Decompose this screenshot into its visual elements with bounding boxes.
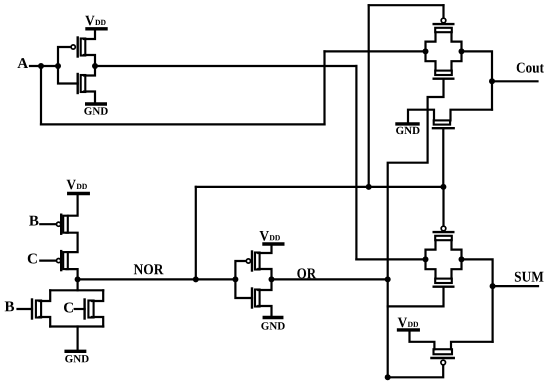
wire M3 drain to M4 source	[67, 233, 78, 252]
tg nmos channel	[435, 279, 452, 283]
tg pmos channel	[435, 28, 452, 32]
ground bar A-inverter	[87, 102, 106, 105]
nmos M6 channel	[88, 301, 93, 318]
wire B to M5 gate	[18, 308, 33, 310]
wire NOR up right	[368, 5, 370, 187]
wire NOR output run	[78, 278, 236, 280]
label OR	[297, 268, 316, 278]
wire Cout output	[492, 80, 538, 82]
wire M5 source to bottom rail	[40, 317, 51, 327]
wire inverter gate to PMOS M7	[235, 261, 246, 279]
wire M2 drain to output	[84, 66, 95, 76]
wire bottom rail to GND	[76, 327, 78, 352]
wire inverter gate to NMOS M8	[235, 279, 252, 298]
tg pmos channel	[435, 236, 452, 240]
pmos M7 channel	[255, 253, 260, 270]
label VDD OR-inverter	[260, 231, 280, 241]
pmos M4 channel	[63, 252, 68, 269]
pmos M7 gate	[251, 252, 253, 271]
wire A down	[40, 66, 42, 124]
tg pmos bubble	[441, 226, 446, 231]
wire A top run to TG1 input	[325, 50, 426, 52]
wire NOR horizontal run	[196, 186, 444, 188]
tg pmos bubble	[441, 18, 446, 23]
node OR junction	[385, 276, 391, 282]
nmos M9 channel (Cout pulldown)	[434, 120, 450, 124]
pmos M4 bubble	[57, 259, 61, 263]
label GND NOR	[65, 355, 88, 362]
node NOR to TG1 pgate riser	[366, 184, 372, 190]
wire M7 drain to OR output	[258, 269, 271, 279]
label VDD SUM block	[398, 318, 418, 328]
tg nmos channel	[435, 71, 452, 75]
wire M2 source to GND	[84, 92, 95, 103]
pmos M4 gate	[60, 251, 62, 270]
wire pulldown bottom rail	[50, 325, 103, 327]
wire OR run to TG gates	[272, 278, 388, 280]
wire Abar to TG2 input	[356, 258, 425, 260]
wire M6 source to bottom rail	[92, 317, 103, 327]
label VDD A-inverter	[85, 16, 105, 26]
ground bar NOR	[66, 350, 85, 353]
wire C to M6 gate	[75, 308, 85, 310]
pmos M7 bubble	[246, 259, 250, 263]
tg pmos gate bar	[434, 231, 454, 233]
node A gate junction	[55, 63, 61, 69]
input label C pullup	[28, 254, 37, 264]
nmos M5 gate	[31, 300, 33, 319]
input label B pulldown	[5, 302, 14, 312]
pmos M1 bubble	[71, 45, 75, 49]
power VDD bar NOR	[69, 192, 89, 195]
pmos M3 gate	[60, 215, 62, 234]
input label C pulldown	[64, 303, 73, 313]
node NOR to TG2 pgate	[440, 184, 446, 190]
wire M9 gate down to NOR net	[442, 128, 444, 187]
wire NOR node down to pulldown pair	[76, 279, 78, 290]
wire M7 source to VDD	[258, 246, 271, 254]
tg nmos gate bar	[434, 286, 454, 288]
wire M9 source to GND	[408, 110, 434, 123]
wire Abar run right	[95, 65, 356, 67]
wire A input	[30, 65, 58, 67]
nmos M8 channel	[255, 290, 260, 307]
tg left node	[423, 48, 429, 54]
tg pmos gate bar	[434, 23, 454, 25]
wire C to M4 gate	[40, 260, 56, 262]
pmos M10 channel (SUM pullup)	[434, 349, 453, 354]
label NOR	[134, 264, 164, 274]
wire TG2 right to SUM corner	[462, 259, 493, 341]
wire A up	[323, 51, 325, 124]
wire M1 drain to output	[84, 55, 95, 66]
label Cout	[517, 63, 544, 73]
node OR output	[269, 276, 275, 282]
nmos M8 gate	[251, 289, 253, 308]
node NOR output	[75, 276, 81, 282]
wire pulldown top rail	[50, 289, 103, 291]
label GND OR-inverter	[261, 322, 284, 329]
label VDD NOR	[67, 180, 87, 190]
wire Cout bottom to M9 drain	[451, 110, 493, 121]
wire TG1 ngate step down to OR net	[388, 79, 444, 378]
tg body outline	[426, 240, 462, 278]
wire NOR up	[195, 187, 197, 280]
pmos M1 gate	[76, 38, 78, 57]
tg left node	[423, 256, 429, 262]
wire A gate to PMOS M1	[58, 47, 71, 66]
tg body outline	[426, 32, 462, 70]
node Cout junction	[489, 78, 495, 84]
ground bar OR-inverter	[264, 316, 282, 319]
wire M4 drain to NOR node	[67, 269, 78, 279]
wire A bottom run	[41, 123, 325, 125]
pmos M3 bubble	[57, 222, 61, 226]
wire NOR down to TG2 bubble	[442, 187, 444, 226]
label SUM	[515, 272, 544, 282]
wire TG1 right to Cout corner	[462, 51, 493, 109]
power VDD bar SUM block	[399, 328, 419, 331]
wire M10 source to VDD	[410, 331, 435, 349]
wire M6 drain to top rail	[92, 290, 103, 301]
ground bar Cout block	[397, 122, 418, 125]
nmos M6 gate	[83, 300, 85, 319]
label GND Cout block	[396, 127, 419, 134]
nmos M2 gate	[76, 74, 78, 93]
tg nmos gate bar	[434, 77, 454, 79]
wire to TG1 bubble	[442, 5, 444, 18]
input label B pullup	[29, 216, 38, 226]
node NOR rise junction	[193, 276, 199, 282]
power VDD bar A-inverter	[87, 27, 106, 30]
wire M1 source to VDD	[84, 30, 95, 39]
wire TG2 ngate to OR net	[388, 287, 444, 307]
power VDD bar OR-inverter	[264, 242, 283, 245]
wire M8 drain to OR output	[258, 279, 271, 290]
wire M8 source to GND	[258, 306, 271, 316]
tg right node	[459, 48, 465, 54]
wire A gate to NMOS M2	[58, 66, 78, 84]
pmos M1 channel	[81, 39, 86, 56]
input label A	[17, 58, 28, 68]
label GND A-inverter	[84, 107, 107, 114]
pmos M3 channel	[63, 216, 68, 233]
nmos M9 gate bar	[433, 127, 454, 129]
wire M5 drain to top rail	[40, 290, 51, 301]
wire OR bottom rail to M10 gate	[388, 366, 444, 378]
node OR bottom corner	[385, 374, 391, 380]
wire B to M3 gate	[40, 223, 56, 225]
node NOR to inverter input	[232, 276, 238, 282]
wire VDD to M3 source	[68, 194, 78, 216]
nmos M2 channel	[81, 75, 86, 92]
wire SUM output	[493, 285, 538, 287]
tg right node	[459, 256, 465, 262]
wire Abar down	[355, 66, 357, 259]
node SUM junction	[490, 283, 496, 289]
node A input junction	[38, 63, 44, 69]
node Abar output	[92, 63, 98, 69]
nmos M5 channel	[36, 301, 41, 318]
wire M10 drain to SUM net	[451, 342, 493, 350]
pmos M10 gate bar	[431, 357, 453, 359]
pmos M10 bubble	[441, 360, 446, 365]
wire NOR top run	[369, 4, 444, 6]
